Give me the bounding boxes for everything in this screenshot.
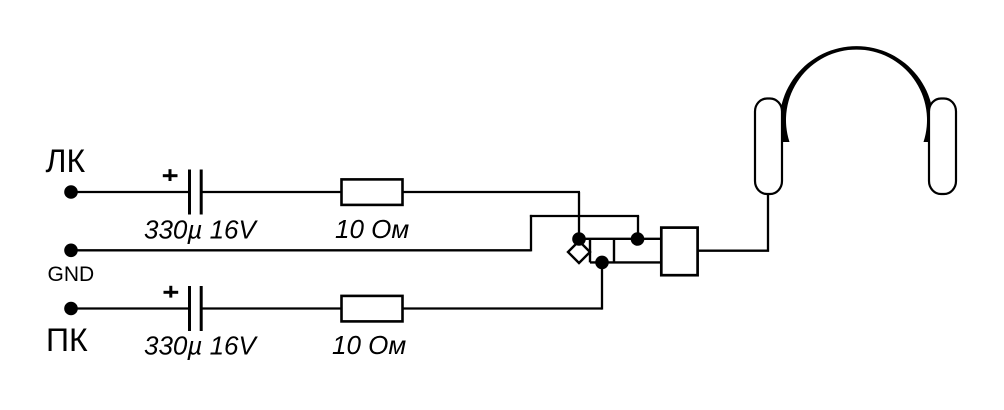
svg-text:ЛК: ЛК bbox=[46, 143, 86, 179]
svg-text:ПК: ПК bbox=[46, 322, 88, 358]
wire jack body to headphones bbox=[698, 195, 768, 251]
svg-text:GND: GND bbox=[48, 263, 95, 286]
jack plug XS1 body bbox=[661, 228, 697, 276]
headphones BF1 right earcup bbox=[929, 99, 956, 195]
wire capacitor C2 to jack ring node (via resistor R2) bbox=[202, 307, 603, 309]
capacitor C2 polarity plus sign bbox=[164, 286, 179, 298]
wire capacitor C1 to node A (via resistor R1) bbox=[202, 191, 581, 193]
jack plug XS1 ring divider right bbox=[613, 239, 615, 263]
resistor R2 bbox=[342, 296, 403, 322]
headphones BF1 left earcup bbox=[755, 99, 782, 195]
capacitor C1 polarity plus sign bbox=[163, 169, 178, 181]
svg-text:10 Ом: 10 Ом bbox=[335, 214, 409, 244]
wire GND vertical rise bbox=[530, 215, 532, 252]
svg-text:10 Ом: 10 Ом bbox=[332, 330, 406, 360]
capacitor C2 (left plate) bbox=[188, 286, 191, 331]
svg-text:330µ 16V: 330µ 16V bbox=[144, 215, 259, 245]
wire node A vertical drop to jack tip bbox=[578, 192, 580, 239]
node ПК terminal bbox=[64, 302, 78, 316]
jack plug XS1 upper contact line bbox=[579, 238, 662, 240]
wire GND upper horizontal run bbox=[530, 215, 639, 217]
jack plug XS1 tip (diamond) bbox=[568, 241, 590, 263]
wire ПК terminal to capacitor C2 bbox=[71, 307, 189, 309]
node GND terminal bbox=[64, 244, 78, 258]
wire ЛК terminal to capacitor C1 bbox=[71, 191, 189, 193]
svg-text:330µ 16V: 330µ 16V bbox=[144, 331, 259, 361]
capacitor C1 (left plate) bbox=[188, 170, 191, 215]
wire GND horizontal run bbox=[71, 249, 531, 251]
node: ЛК wire to jack tip junction bbox=[572, 232, 586, 246]
wire ПК rise to jack ring node bbox=[601, 262, 603, 309]
capacitor C1 (right plate) bbox=[200, 170, 203, 215]
jack plug XS1 ring divider left bbox=[589, 239, 591, 263]
node ЛК terminal bbox=[64, 185, 78, 199]
wire GND drop to jack sleeve node bbox=[637, 216, 639, 239]
jack plug XS1 lower contact line bbox=[590, 261, 662, 263]
capacitor C2 (right plate) bbox=[200, 286, 203, 331]
resistor R1 bbox=[342, 179, 403, 205]
node: ПК wire to jack ring junction bbox=[595, 256, 609, 270]
headphones BF1 headband arc bbox=[779, 46, 933, 142]
node: GND wire to jack sleeve junction bbox=[631, 232, 645, 246]
